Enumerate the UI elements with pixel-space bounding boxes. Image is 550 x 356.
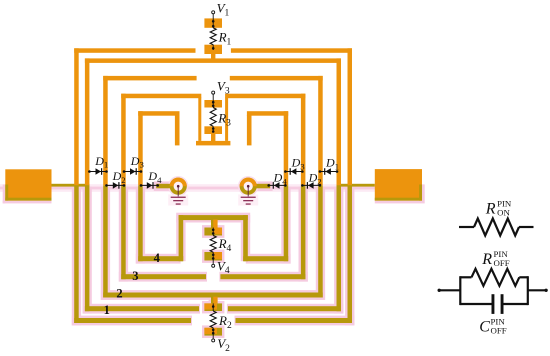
ring 4 lower-half conductors (back layer) [121,185,126,279]
wire parallel RC loop [459,276,461,305]
ring 5 raised centre section (bridge over R4 bias) [179,215,248,220]
bias pad V3 lower [204,126,222,134]
ring 5 upper-half conductors (top layer) [138,111,143,185]
wire via stub left [156,184,171,189]
bias pad V1 upper [204,18,222,27]
pink halo under R2 bias network [209,297,218,304]
bias pad R4 upper [204,228,222,236]
svg-text:OFF: OFF [491,326,507,336]
right feed pad P2 [375,169,422,201]
bias stem V3 to cavity base [211,134,215,142]
ring 1 lower-half conductors (back layer) [74,185,79,323]
node V1 terminal [212,11,215,14]
bias cavity walls and base for R3 (hangs from ring 4) [198,98,201,141]
bias stem V1 to ring 2 [211,54,215,59]
resistor R4 [212,228,214,236]
node V3 terminal [212,91,215,94]
pink halo under via stubs [154,181,173,191]
pink halo under R4 bias network [202,225,224,238]
bias stem R4 (from raised ring 5 section) [211,220,215,228]
capacitor C_OFF^PIN plates [492,294,495,314]
node V4 terminal [212,264,215,267]
ring 1 upper-half conductors (top layer) [74,48,79,185]
bias pad V3 upper [204,100,222,108]
ground left [177,186,179,196]
pink halo under lower ring conductors [72,187,81,326]
bias pad R2 upper [204,303,222,311]
resistor R_OFF^PIN symbol [460,276,471,278]
resistor R2 [212,303,214,311]
bias pad R4 lower [204,252,222,261]
bias pad R2 lower [204,328,222,336]
wire feed line right (ring 2 to pad) [337,184,375,187]
ring 5 lower-half conductors (back layer) [138,185,143,261]
svg-text:3: 3 [132,269,138,283]
diode D1 right (ring3-ring2) [320,171,337,173]
via right (grounded) [240,178,257,195]
wire via stub right [255,184,270,189]
wire V3 to pad [212,94,214,107]
left feed pad P1 [5,169,51,200]
wire external leads of RC model [439,289,460,291]
svg-text:R: R [485,201,496,218]
pink halo under left feed pad [3,185,6,204]
diode D2 left (ring3-ring4) [107,184,125,186]
svg-text:OFF: OFF [494,258,510,268]
ring 2 upper-half conductors (top layer) [85,58,90,185]
svg-text:ON: ON [497,208,510,218]
wire feed line left (pad to ring 1 and ring 2) [52,184,90,187]
svg-text:C: C [479,319,490,336]
ring 3 upper-half conductors (top layer) [103,76,108,185]
svg-text:R: R [481,251,492,268]
diode D2 right (ring4-ring3) [302,184,320,186]
diode D4 right (via-ring5) [269,184,286,186]
bias pad V1 lower (in ring 1 gap) [204,45,222,54]
bias stem R2 (from ring 3 bottom) [211,297,215,304]
wire V1 to pad [212,14,214,28]
diode D3 left (ring4-ring5) [124,171,141,173]
svg-text:4: 4 [154,251,161,265]
ring 2 lower-half conductors (back layer) [85,185,90,311]
svg-text:1: 1 [104,303,110,317]
diode D1 left (ring2-ring3) [89,171,106,173]
pink halo under right feed pad [422,185,425,204]
svg-text:2: 2 [116,286,122,300]
ring 4 upper-half conductors (top layer) [121,94,126,186]
ring 3 lower-half conductors (back layer) [103,185,108,297]
ring 5 top gap hooks [175,115,180,145]
resistor R3 [210,108,216,127]
diode D4 left (ring5-via) [141,184,158,186]
node V2 terminal [212,339,215,342]
resistor R1 [210,28,216,45]
diode D3 right (ring5-ring4) [285,171,302,173]
resistor R_ON^PIN symbol [459,226,474,228]
wire bottom-layer DC bias line (pink band) [0,184,425,192]
via left (grounded) [170,178,187,195]
ground right [247,186,249,196]
